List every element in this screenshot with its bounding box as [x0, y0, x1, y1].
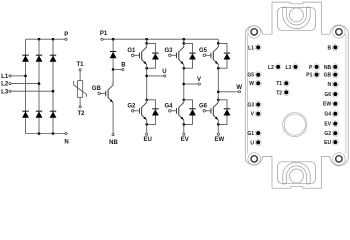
- diode across G3: [192, 52, 194, 54]
- terminal B: [122, 68, 124, 70]
- wire lower diode bracket U: [147, 100, 156, 109]
- wire leg U upper drop: [146, 39, 148, 43]
- node output V: [182, 83, 185, 86]
- svg-text:G5: G5: [247, 73, 254, 79]
- diode across G6: [226, 108, 228, 110]
- thermistor diagonal stroke: [74, 81, 87, 97]
- module center circle: [283, 113, 307, 137]
- wire: rectifier column 3: [52, 39, 54, 133]
- svg-text:G4: G4: [164, 103, 173, 109]
- svg-text:L1: L1: [248, 45, 254, 51]
- pin P1 pin: [314, 72, 320, 78]
- svg-text:T2: T2: [276, 90, 282, 96]
- svg-text:G3: G3: [164, 48, 173, 54]
- pin G1: [255, 130, 261, 136]
- terminal NB: [112, 134, 114, 136]
- transistor GB (brake chopper IGBT): [98, 92, 101, 95]
- terminal L3: [9, 90, 11, 92]
- pin P pin: [314, 64, 320, 70]
- terminal T1: [79, 69, 81, 71]
- terminal N: [65, 132, 67, 134]
- node leg U upper collector: [145, 42, 148, 45]
- transistor G6: [203, 110, 206, 113]
- screw top-left: [248, 26, 261, 39]
- wire: inverter top rail: [147, 38, 219, 40]
- pin L1: [255, 44, 261, 50]
- terminal EU: [146, 133, 148, 135]
- svg-text:B: B: [327, 45, 331, 51]
- diode across G5: [226, 52, 228, 54]
- diode D4 (lower arm, column 1): [25, 110, 27, 112]
- diode DB (brake freewheel): [112, 51, 114, 53]
- wire: rectifier top rail to terminal P: [26, 38, 65, 40]
- svg-text:T1: T1: [276, 81, 282, 87]
- pin T1 pin: [283, 80, 289, 86]
- pin NB pin: [332, 64, 338, 70]
- transistor G3: [169, 54, 172, 57]
- wire leg U mid: [146, 65, 148, 100]
- pin EU pin: [332, 139, 338, 145]
- wire lower diode anode V: [184, 116, 193, 125]
- wire: rectifier column 2: [38, 39, 40, 133]
- module top mounting tab: [272, 2, 322, 34]
- diode across G2: [154, 108, 156, 110]
- pin EV pin: [332, 121, 338, 127]
- bottom tab circle boss: [290, 169, 304, 183]
- svg-text:W: W: [249, 81, 254, 87]
- top tab clamp slot: [283, 7, 310, 29]
- terminal T2: [79, 106, 81, 108]
- wire upper diode bracket V: [184, 43, 193, 53]
- pin G3: [255, 101, 261, 107]
- diode D5 (lower arm, column 2): [38, 110, 40, 112]
- wire upper diode anode W: [218, 60, 227, 69]
- wire upper diode anode V: [184, 60, 193, 69]
- terminal V: [198, 83, 200, 85]
- svg-text:EV: EV: [324, 122, 331, 128]
- svg-text:L3: L3: [285, 65, 291, 71]
- svg-text:G5: G5: [199, 48, 208, 54]
- terminal P: [65, 38, 67, 40]
- pin B pin: [332, 44, 338, 50]
- svg-text:G4: G4: [324, 112, 331, 118]
- wire chopper collector drop: [112, 39, 114, 51]
- transistor G4: [169, 110, 172, 113]
- terminal U: [164, 75, 166, 77]
- svg-text:L2: L2: [1, 82, 9, 88]
- node rail-leg V: [182, 38, 185, 41]
- node output U: [145, 75, 148, 78]
- transistor G1: [131, 54, 134, 57]
- transistor G2: [131, 110, 134, 113]
- wire diode to node B: [112, 58, 114, 69]
- wire emitter EV: [183, 120, 185, 133]
- node: bottom rail junctions: [38, 132, 41, 135]
- terminal L1: [9, 75, 11, 77]
- node leg W lower collector: [217, 98, 220, 101]
- svg-text:W: W: [236, 85, 242, 91]
- wire to terminal V: [184, 83, 198, 85]
- node output W: [217, 90, 220, 93]
- svg-text:L3: L3: [1, 89, 9, 95]
- node L2-column2: [38, 82, 41, 85]
- node leg W upper collector: [217, 42, 220, 45]
- svg-text:G1: G1: [247, 131, 254, 137]
- wire T1 to thermistor: [79, 71, 81, 81]
- svg-text:N: N: [64, 140, 68, 146]
- svg-text:G2: G2: [324, 131, 331, 137]
- module body outline: [245, 26, 272, 165]
- pin G6 pin: [332, 91, 338, 97]
- transistor G5: [203, 54, 206, 57]
- svg-text:EW: EW: [323, 102, 331, 108]
- wire leg W upper drop: [217, 39, 219, 43]
- svg-text:G3: G3: [247, 102, 254, 108]
- node L3-column3: [52, 90, 55, 93]
- svg-text:B: B: [121, 63, 126, 69]
- wire: rectifier bottom rail to terminal N: [26, 133, 65, 135]
- wire L2: [11, 83, 39, 85]
- terminal W: [238, 91, 240, 93]
- svg-text:EU: EU: [324, 140, 331, 146]
- node rail-leg U: [145, 38, 148, 41]
- pin V: [255, 111, 261, 117]
- wire to terminal W: [218, 91, 238, 93]
- wire leg W mid: [217, 65, 219, 100]
- terminal EW: [217, 133, 219, 135]
- wire upper diode bracket W: [218, 43, 227, 53]
- node leg U upper emitter: [145, 67, 148, 70]
- svg-text:GB: GB: [324, 73, 332, 79]
- pin T2 pin: [283, 89, 289, 95]
- svg-text:EV: EV: [181, 137, 189, 143]
- wire thermistor to T2: [79, 97, 81, 106]
- wire L3: [11, 90, 53, 92]
- bottom tab clamp slot: [283, 162, 310, 184]
- wire leg V upper drop: [183, 39, 185, 43]
- module bottom mounting tab: [272, 157, 322, 189]
- diode across G1: [154, 52, 156, 54]
- wire lower diode anode U: [147, 116, 156, 125]
- svg-text:GB: GB: [92, 86, 102, 92]
- svg-text:NB: NB: [324, 65, 332, 71]
- top tab slot outline: [278, 8, 316, 31]
- svg-text:N: N: [327, 82, 331, 88]
- wire lower diode bracket W: [218, 100, 227, 109]
- node leg W lower emitter: [217, 123, 220, 126]
- thermistor body: [78, 81, 83, 98]
- pin N pin: [332, 81, 338, 87]
- svg-text:U: U: [250, 140, 254, 146]
- node chopper-rail: [112, 38, 115, 41]
- svg-text:P: P: [64, 32, 68, 38]
- wire emitter EU: [146, 120, 148, 133]
- module inner side lines: [247, 34, 249, 153]
- node leg U lower collector: [145, 98, 148, 101]
- diode across G4: [192, 108, 194, 110]
- pin G5: [255, 72, 261, 78]
- screw bottom-right: [333, 153, 346, 166]
- terminal L2: [9, 83, 11, 85]
- svg-text:P1: P1: [306, 73, 312, 79]
- wire to terminal B: [113, 69, 122, 71]
- svg-text:G6: G6: [199, 103, 208, 109]
- terminal P1: [101, 38, 103, 40]
- wire B node down to chopper IGBT: [112, 70, 114, 86]
- node L1-column1: [24, 75, 27, 78]
- svg-text:NB: NB: [109, 140, 118, 146]
- svg-text:T2: T2: [77, 111, 85, 117]
- wire lower diode bracket V: [184, 100, 193, 109]
- node leg V upper emitter: [182, 67, 185, 70]
- svg-text:U: U: [162, 69, 166, 75]
- pin L2: [275, 64, 281, 70]
- terminal EV: [183, 133, 185, 135]
- svg-text:EW: EW: [214, 137, 224, 143]
- wire leg V mid: [183, 65, 185, 100]
- wire to terminal U: [147, 75, 164, 77]
- screw bottom-left: [248, 153, 261, 166]
- pin G2 pin: [332, 130, 338, 136]
- svg-text:G1: G1: [127, 48, 136, 54]
- pin GB pin: [332, 72, 338, 78]
- pin U: [255, 139, 261, 145]
- wire L1: [11, 75, 25, 77]
- top tab circle boss: [290, 8, 304, 22]
- wire upper diode bracket U: [147, 43, 156, 53]
- svg-text:L2: L2: [268, 65, 274, 71]
- pin EW pin: [332, 101, 338, 107]
- svg-text:V: V: [197, 77, 201, 83]
- svg-text:T1: T1: [76, 62, 84, 68]
- node leg V lower emitter: [182, 123, 185, 126]
- node B junction: [112, 68, 115, 71]
- wire emitter EW: [217, 120, 219, 133]
- diode D6 (lower arm, column 3): [52, 110, 54, 112]
- node: top rail junctions: [38, 38, 41, 41]
- svg-text:EU: EU: [144, 137, 152, 143]
- diode D2 (upper arm, column 2): [38, 54, 40, 56]
- svg-text:G6: G6: [324, 92, 331, 98]
- screw top-right: [333, 26, 346, 39]
- diode D3 (upper arm, column 3): [52, 54, 54, 56]
- svg-text:P1: P1: [100, 31, 108, 37]
- pin G4 pin: [332, 111, 338, 117]
- node leg V upper collector: [182, 42, 185, 45]
- svg-text:G2: G2: [127, 103, 136, 109]
- diode D1 (upper arm, column 1): [25, 54, 27, 56]
- svg-text:L1: L1: [1, 74, 9, 80]
- bottom tab slot outline: [278, 162, 316, 184]
- wire: rectifier column 1: [25, 39, 27, 133]
- node leg W upper emitter: [217, 67, 220, 70]
- pin L3: [292, 64, 298, 70]
- wire upper diode anode U: [147, 60, 156, 69]
- wire P1 to inverter top rail: [103, 38, 147, 40]
- wire lower diode anode W: [218, 116, 227, 125]
- node leg V lower collector: [182, 98, 185, 101]
- pin W: [255, 80, 261, 86]
- node leg U lower emitter: [145, 123, 148, 126]
- wire chopper emitter to NB: [112, 103, 114, 134]
